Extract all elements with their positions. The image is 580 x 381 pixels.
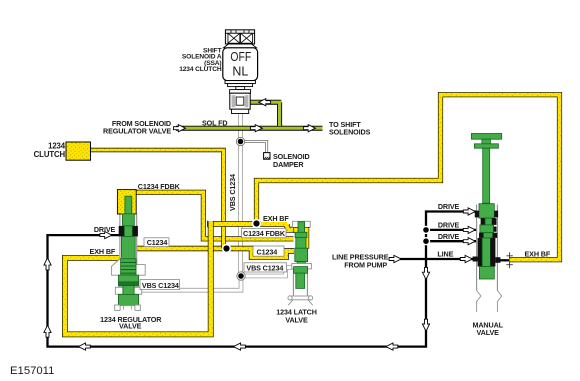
svg-text:CLUTCH: CLUTCH (34, 150, 66, 159)
svg-text:C1234 FDBK: C1234 FDBK (138, 182, 181, 191)
svg-text:DRIVE: DRIVE (438, 232, 460, 241)
svg-text:DRIVE: DRIVE (94, 225, 116, 234)
svg-text:VBS C1234: VBS C1234 (142, 281, 179, 290)
svg-text:SOL FD: SOL FD (202, 118, 228, 127)
svg-text:VALVE: VALVE (477, 328, 500, 337)
svg-text:DAMPER: DAMPER (273, 160, 304, 169)
svg-text:VALVE: VALVE (285, 315, 308, 324)
svg-text:SOLENOIDS: SOLENOIDS (329, 128, 371, 137)
svg-text:E157011: E157011 (10, 365, 54, 377)
svg-text:OFF: OFF (230, 49, 251, 64)
svg-text:C1234: C1234 (257, 248, 278, 257)
svg-text:DRIVE: DRIVE (438, 202, 460, 211)
svg-text:LINE: LINE (437, 249, 453, 258)
svg-text:EXH BF: EXH BF (263, 214, 289, 223)
svg-text:DRIVE: DRIVE (438, 220, 460, 229)
svg-text:VBS C1234: VBS C1234 (228, 174, 237, 211)
svg-text:FROM PUMP: FROM PUMP (344, 260, 387, 269)
svg-text:NL: NL (232, 64, 248, 79)
svg-text:VALVE: VALVE (119, 322, 142, 331)
svg-text:REGULATOR VALVE: REGULATOR VALVE (103, 126, 171, 135)
svg-text:EXH BF: EXH BF (525, 250, 551, 259)
svg-text:C1234: C1234 (147, 238, 168, 247)
svg-text:EXH BF: EXH BF (90, 247, 116, 256)
svg-text:C1234 FDBK: C1234 FDBK (243, 229, 286, 238)
svg-text:VBS C1234: VBS C1234 (246, 264, 283, 273)
svg-text:1234 CLUTCH: 1234 CLUTCH (179, 66, 222, 73)
